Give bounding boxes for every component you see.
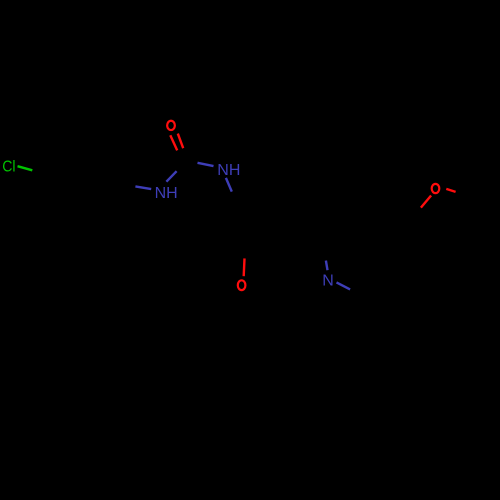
bond aryl-O methoxy (red half) bbox=[421, 196, 431, 208]
svg-text:Cl: Cl bbox=[2, 158, 15, 176]
bond C(=O)-NH left (blue half) bbox=[166, 171, 176, 182]
svg-text:NH: NH bbox=[217, 162, 240, 179]
bond NH left-phenyl (blue half) bbox=[135, 186, 151, 189]
bond O-CH3 methoxy (red half) bbox=[446, 189, 455, 192]
bond C-N ring top (blue half) bbox=[326, 261, 328, 271]
ether oxygen O label (lower) bbox=[238, 280, 246, 290]
bond N ring-C right (blue half) bbox=[337, 282, 351, 289]
bond Cl-phenyl (green half) bbox=[18, 166, 33, 170]
bond C(=O)-NH right (blue half) bbox=[198, 163, 214, 166]
bond C-O lower (red half) bbox=[242, 258, 245, 276]
svg-text:NH: NH bbox=[155, 185, 178, 202]
svg-text:N: N bbox=[322, 273, 334, 290]
bond NH right-CH (blue half) bbox=[226, 178, 232, 192]
carbonyl oxygen O label bbox=[167, 121, 175, 130]
bond C=O double (red halves) bbox=[170, 135, 177, 150]
methoxy oxygen O label bbox=[432, 184, 440, 193]
